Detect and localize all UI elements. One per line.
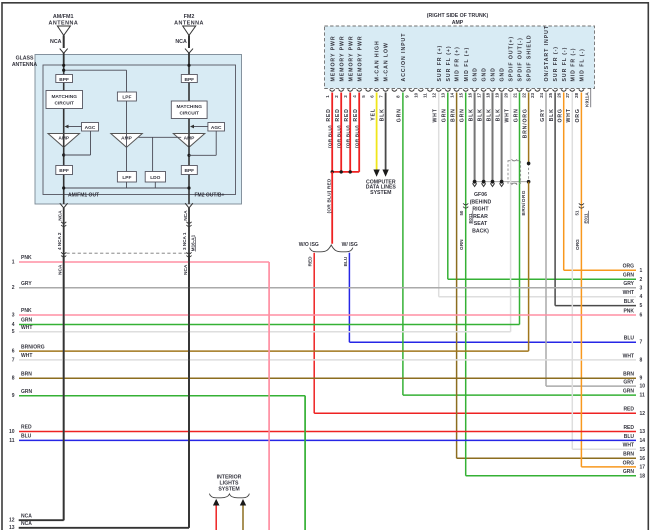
arrow AGC2 to AMP3 input	[193, 126, 208, 128]
svg-text:GRN: GRN	[623, 389, 635, 395]
svg-text:14: 14	[449, 92, 454, 97]
wire BLU branch W/ ISG	[348, 253, 350, 343]
svg-text:E011: E011	[468, 213, 473, 224]
svg-text:8: 8	[12, 376, 15, 382]
svg-text:WHT: WHT	[504, 108, 510, 122]
pin 28 cup connector at x=581.4	[579, 89, 584, 91]
svg-text:WHT: WHT	[21, 325, 32, 331]
pin 8 cup connector at x=402.9	[400, 89, 405, 91]
AMP dashed box (right side of trunk)	[325, 26, 595, 89]
pin 25 cup connector at x=555.1	[553, 89, 558, 91]
svg-text:13: 13	[640, 429, 646, 435]
svg-text:RED: RED	[335, 108, 341, 121]
svg-text:MID FL (-): MID FL (-)	[580, 48, 586, 81]
svg-text:ACC/ON INPUT: ACC/ON INPUT	[401, 33, 407, 82]
connector arrow into glass box (FM2)	[185, 49, 193, 54]
svg-text:BRN/ORG: BRN/ORG	[21, 344, 45, 350]
svg-text:RED: RED	[344, 108, 350, 121]
svg-text:SYSTEM: SYSTEM	[370, 190, 391, 196]
svg-text:BRN: BRN	[450, 108, 456, 122]
svg-text:GRY: GRY	[21, 281, 32, 287]
svg-text:ANTENNA: ANTENNA	[12, 62, 38, 68]
svg-text:GRN: GRN	[459, 239, 465, 250]
svg-text:WHT: WHT	[623, 353, 634, 359]
in-line connector 50 E011 on GRN pin15 wire	[463, 203, 468, 205]
svg-text:NCA: NCA	[50, 39, 62, 45]
svg-text:RED: RED	[326, 108, 332, 121]
svg-text:GRN: GRN	[513, 108, 519, 122]
wire PNK vertical overdraw	[268, 262, 270, 530]
svg-text:10: 10	[9, 429, 15, 435]
svg-text:3 NCA 1: 3 NCA 1	[182, 232, 187, 250]
wire GRN pin21 SPDIF down through shield and left to edge wire 4	[519, 93, 521, 325]
svg-text:YEL: YEL	[370, 108, 376, 121]
wire WHT pin27 down right to edge wire 15	[571, 93, 573, 450]
wire BLK M-CAN LOW to computer data lines	[385, 93, 387, 171]
ISG split brace	[310, 245, 353, 252]
pin 17 cup connector at x=483.6	[481, 89, 486, 91]
svg-text:50: 50	[459, 210, 464, 215]
pin 20 cup connector at x=510.6	[508, 89, 513, 91]
svg-text:18: 18	[485, 92, 490, 97]
wire left 11 BLU full width	[19, 439, 636, 441]
svg-text:25: 25	[548, 92, 553, 97]
svg-text:MEMORY PWR: MEMORY PWR	[339, 35, 345, 81]
svg-text:SUR FL (+): SUR FL (+)	[446, 45, 452, 81]
svg-text:GRN: GRN	[442, 108, 448, 122]
svg-text:MID FL (+): MID FL (+)	[464, 47, 470, 82]
pin 4 cup connector at x=359.2	[357, 89, 362, 91]
wire GRN pin13 down right to edge wire 2	[447, 93, 449, 280]
svg-text:WHT: WHT	[566, 108, 572, 122]
pin 23 cup connector at x=537.4	[535, 89, 540, 91]
svg-text:2: 2	[12, 285, 15, 291]
svg-text:GND: GND	[500, 67, 506, 81]
in-line connector on AM/FM1 wire	[61, 222, 66, 224]
ground bus G706	[473, 181, 529, 183]
pin 7 cup connector at x=385.6	[383, 89, 388, 91]
svg-text:SUR FL (-): SUR FL (-)	[562, 47, 568, 82]
connector arrow out of glass box (AM/FM1)	[60, 203, 68, 208]
feedback loop AMP1 to AGC1	[62, 153, 65, 156]
wire AMP2 to AMP3 connecting line with LDO tap	[139, 136, 182, 138]
svg-text:RED: RED	[623, 425, 634, 431]
svg-text:PNK: PNK	[21, 255, 32, 261]
svg-text:GRN: GRN	[21, 318, 33, 324]
svg-text:M16-A1: M16-A1	[190, 234, 195, 251]
svg-text:BLU: BLU	[624, 434, 635, 440]
svg-text:WHT: WHT	[623, 443, 634, 449]
svg-text:LDO: LDO	[150, 175, 160, 181]
svg-text:16: 16	[640, 456, 646, 462]
svg-text:MID FR (+): MID FR (+)	[455, 46, 461, 81]
svg-text:27: 27	[565, 92, 570, 97]
svg-text:BLU: BLU	[21, 434, 32, 440]
svg-text:E011: E011	[584, 213, 589, 224]
svg-text:18: 18	[640, 473, 646, 479]
wires GND BLK pins 16-19 down to GF06 ground	[474, 93, 476, 182]
svg-text:WHT: WHT	[433, 108, 439, 122]
svg-text:LPF: LPF	[122, 175, 131, 181]
svg-text:12: 12	[432, 92, 437, 97]
svg-text:FM2 OUT/B+: FM2 OUT/B+	[195, 193, 225, 199]
svg-text:BLK: BLK	[477, 108, 483, 121]
svg-text:GND: GND	[491, 67, 497, 81]
svg-text:SPDIF OUT(-): SPDIF OUT(-)	[518, 37, 524, 81]
svg-text:RED: RED	[21, 425, 32, 431]
svg-text:GRN: GRN	[397, 108, 403, 122]
svg-text:9: 9	[12, 393, 15, 399]
pin 22 cup connector at x=528.6	[526, 89, 531, 91]
svg-text:ORG: ORG	[558, 108, 564, 122]
svg-text:WHT: WHT	[623, 290, 634, 296]
svg-text:NCA: NCA	[183, 210, 189, 221]
BPF box bottom-right	[181, 166, 197, 175]
pin 15 cup connector at x=465.7	[463, 89, 468, 91]
svg-text:BRN: BRN	[623, 372, 634, 378]
svg-text:GND: GND	[473, 67, 479, 81]
svg-text:1: 1	[640, 268, 643, 274]
wire segments through AMP triangles	[63, 134, 65, 148]
svg-text:BLK: BLK	[468, 108, 474, 121]
interior lights brace	[209, 494, 249, 498]
svg-text:7: 7	[640, 340, 643, 346]
wire left 1 PNK to vertical	[19, 261, 269, 263]
wire left 10 RED full width	[19, 431, 636, 433]
svg-text:PNK: PNK	[21, 308, 32, 314]
svg-text:MEMORY PWR: MEMORY PWR	[330, 35, 336, 81]
svg-text:GRN: GRN	[460, 108, 466, 122]
wire BRN/ORG pin22 shield drain	[528, 93, 530, 164]
LDO box	[145, 172, 165, 183]
svg-text:M-CAN HIGH: M-CAN HIGH	[375, 40, 381, 81]
wire BRN arrow to interior lights	[242, 504, 244, 530]
pin 5 cup connector at x=368.2	[366, 89, 371, 91]
wire ORG pin26 down right to edge wire 1	[563, 93, 565, 271]
svg-text:BRN: BRN	[623, 452, 634, 458]
wires memory pwr RED pins 1-4 down to bus	[331, 93, 333, 172]
feedback loop AMP3 to AGC2	[187, 154, 190, 157]
svg-text:PNK: PNK	[623, 308, 634, 314]
wire WHT pin20 down and left to edge wire 5	[510, 93, 512, 332]
wire left 7 WHT full width	[19, 359, 636, 361]
svg-text:7: 7	[12, 357, 15, 363]
svg-text:AM/FM1 OUT: AM/FM1 OUT	[68, 193, 99, 199]
svg-text:BLK: BLK	[624, 299, 635, 305]
svg-text:4: 4	[640, 294, 643, 300]
connector arrow out of glass box (FM2)	[185, 203, 193, 208]
shield dashed box around SPDIF pair	[508, 161, 521, 184]
svg-text:GND: GND	[482, 67, 488, 81]
svg-text:NCA: NCA	[58, 210, 64, 221]
svg-text:NCA: NCA	[183, 264, 189, 275]
svg-text:BLK: BLK	[379, 108, 385, 121]
connector arrow into glass box (AM/FM1)	[60, 49, 68, 54]
pin 26 cup connector at x=563.7	[561, 89, 566, 91]
pin 16 cup connector at x=474.6	[472, 89, 477, 91]
wire AM/FM1 vertical overdraw at crossings	[63, 255, 65, 520]
svg-text:ON/START INPUT: ON/START INPUT	[544, 25, 550, 81]
wire RED (OR BLU) combined down to ISG split	[331, 172, 333, 244]
svg-text:10: 10	[640, 384, 646, 390]
wire FM2 vertical inside glass box	[188, 65, 190, 204]
pin 11 cup connector at x=429.9	[427, 89, 432, 91]
BPF box bottom-left	[56, 166, 73, 175]
svg-text:13: 13	[9, 525, 15, 530]
svg-text:5: 5	[640, 303, 643, 309]
in-line connector pair 2 on AM/FM1 wire	[61, 252, 66, 254]
svg-text:(OR BLU) RED: (OR BLU) RED	[326, 178, 332, 213]
svg-text:GRN: GRN	[623, 469, 635, 475]
svg-text:GRY: GRY	[623, 281, 634, 287]
svg-text:24: 24	[539, 92, 544, 97]
pin 12 cup connector at x=438.7	[436, 89, 441, 91]
svg-text:GRY: GRY	[540, 108, 546, 121]
pin 24 cup connector at x=546.0	[543, 89, 548, 91]
wire BRN pin14 down right to edge wire 16	[456, 93, 458, 459]
wire AMP2 apex to lower LPF	[126, 147, 128, 171]
svg-text:NCA: NCA	[21, 513, 32, 519]
svg-text:BPF: BPF	[59, 168, 69, 174]
svg-text:NCA: NCA	[58, 264, 64, 275]
svg-text:20: 20	[503, 92, 508, 97]
in-line connector on FM2 wire	[186, 222, 191, 224]
svg-text:M-CAN LOW: M-CAN LOW	[384, 42, 390, 81]
wire GRN pin15 down right to edge wire 18	[465, 93, 467, 476]
svg-text:MID FR (-): MID FR (-)	[570, 48, 576, 82]
svg-text:SPDIF OUT(+): SPDIF OUT(+)	[509, 36, 515, 82]
wire left 9 GRN to vertical down	[19, 395, 305, 397]
glass antenna inner box	[43, 65, 236, 195]
svg-text:BRN: BRN	[21, 371, 32, 377]
dashed connector tie line	[67, 252, 188, 254]
svg-text:BLK: BLK	[549, 108, 555, 121]
svg-text:22: 22	[521, 92, 526, 97]
svg-text:W/ ISG: W/ ISG	[342, 242, 358, 248]
svg-text:AGC: AGC	[85, 125, 96, 131]
op-amp AMP2 triangle	[111, 134, 143, 148]
svg-text:RIGHT: RIGHT	[472, 207, 489, 213]
svg-text:16: 16	[467, 92, 472, 97]
in-line connector 51 E011 on ORG pin28 wire	[579, 203, 584, 205]
pin 3 cup connector at x=350.2	[348, 89, 353, 91]
svg-text:11: 11	[9, 438, 15, 444]
svg-text:3: 3	[640, 285, 643, 291]
svg-text:GRN: GRN	[21, 389, 33, 395]
matching circuit box left	[46, 91, 83, 109]
svg-text:ORG: ORG	[575, 239, 581, 250]
svg-text:5: 5	[12, 329, 15, 335]
svg-text:W/O ISG: W/O ISG	[299, 242, 319, 248]
pin 10 cup connector at x=420.8	[418, 89, 423, 91]
svg-text:GRY: GRY	[623, 380, 634, 386]
pin gap cup connector at x=394.4	[392, 89, 397, 91]
svg-text:K911A: K911A	[585, 92, 591, 107]
svg-text:SEAT: SEAT	[474, 221, 488, 227]
LPF box lower middle	[117, 172, 136, 183]
wire left 2 GRY full width	[19, 287, 636, 289]
svg-text:NCA: NCA	[175, 39, 187, 45]
wire left 13 NCA	[19, 527, 189, 529]
svg-text:10: 10	[414, 92, 419, 97]
svg-text:FM2: FM2	[184, 14, 195, 20]
junction dots on red bus	[331, 170, 334, 173]
pin 19 cup connector at x=501.6	[499, 89, 504, 91]
pin 21 cup connector at x=519.5	[517, 89, 522, 91]
svg-text:REAR: REAR	[473, 214, 488, 220]
wire LPF to AMP2	[126, 101, 128, 134]
wire RED branch W/O ISG	[313, 253, 315, 414]
svg-text:GLASS: GLASS	[16, 56, 34, 62]
svg-text:14: 14	[640, 438, 646, 444]
svg-text:BACK): BACK)	[472, 229, 489, 235]
svg-text:2: 2	[640, 277, 643, 283]
wire BLK pin25 down right to edge wire 5	[554, 93, 556, 306]
svg-text:BRN/ORG: BRN/ORG	[521, 190, 527, 215]
pin 2 cup connector at x=341.2	[339, 89, 344, 91]
svg-text:3: 3	[12, 312, 15, 318]
pin 18 cup connector at x=492.5	[490, 89, 495, 91]
pin 1 cup connector at x=332.2	[330, 89, 335, 91]
svg-text:(BEHIND: (BEHIND	[470, 199, 492, 205]
pin 6 cup connector at x=376.6	[374, 89, 379, 91]
svg-text:BLU: BLU	[624, 336, 635, 342]
svg-text:12: 12	[640, 411, 646, 417]
svg-text:6: 6	[640, 313, 643, 319]
op-amp AMP1 triangle	[48, 134, 80, 148]
red bus join line	[332, 171, 359, 173]
svg-text:BPF: BPF	[184, 77, 194, 83]
arrow AGC1 to AMP1 input	[67, 126, 82, 128]
svg-text:ORG: ORG	[623, 264, 635, 270]
svg-text:BPF: BPF	[59, 77, 69, 83]
svg-text:ORG: ORG	[623, 460, 635, 466]
wire FM2 vertical overdraw at crossings	[188, 255, 190, 528]
wire left 3 PNK full width	[19, 314, 636, 316]
svg-text:BLU: BLU	[343, 256, 349, 266]
wire GRN pin8 ACC/ON input down and right to edge wire 11	[402, 93, 404, 396]
svg-text:15: 15	[640, 447, 646, 453]
svg-text:CIRCUIT: CIRCUIT	[179, 111, 199, 117]
wire GRY pin24 down right to edge wire 10	[545, 93, 547, 387]
svg-text:SPDIF SHIELD: SPDIF SHIELD	[527, 34, 533, 81]
svg-text:51: 51	[575, 210, 580, 215]
svg-text:CIRCUIT: CIRCUIT	[54, 101, 74, 107]
svg-text:SUR FR (+): SUR FR (+)	[437, 45, 443, 82]
svg-text:GRN: GRN	[623, 273, 635, 279]
svg-text:RED: RED	[623, 407, 634, 413]
svg-text:BLK: BLK	[495, 108, 501, 121]
svg-text:AM/FM1: AM/FM1	[53, 14, 74, 20]
svg-text:21: 21	[512, 92, 517, 97]
svg-text:23: 23	[530, 92, 535, 97]
svg-text:WHT: WHT	[21, 353, 32, 359]
svg-text:17: 17	[476, 92, 481, 97]
svg-text:19: 19	[494, 92, 499, 97]
svg-text:BLK: BLK	[486, 108, 492, 121]
wire WHT pin12 down right to edge wire 4	[438, 93, 440, 297]
svg-text:MEMORY PWR: MEMORY PWR	[348, 35, 354, 81]
svg-text:11: 11	[640, 393, 646, 399]
svg-text:NCA: NCA	[21, 521, 32, 527]
svg-text:4: 4	[12, 322, 15, 328]
AGC box right	[208, 123, 225, 132]
wire FM2 OUT down to bottom	[188, 208, 190, 528]
wire AM/FM1 OUT down to bottom	[63, 208, 65, 520]
svg-text:GF06: GF06	[474, 192, 487, 198]
svg-text:MATCHING: MATCHING	[176, 104, 202, 110]
svg-text:BRN/ORG: BRN/ORG	[522, 108, 528, 138]
svg-text:RED: RED	[353, 108, 359, 121]
wire YEL M-CAN HIGH to computer data lines	[376, 93, 378, 171]
svg-text:SYSTEM: SYSTEM	[218, 486, 239, 492]
wire GRN vertical overdraw	[304, 396, 306, 530]
pin 9 cup connector at x=411.7	[409, 89, 414, 91]
svg-text:4 NCA 2: 4 NCA 2	[57, 232, 62, 250]
svg-text:11: 11	[423, 93, 428, 98]
BPF box top-left	[56, 75, 73, 83]
svg-text:RED: RED	[308, 256, 314, 267]
svg-text:13: 13	[441, 92, 446, 97]
wire ORG pin28 down right to edge wire 17	[580, 93, 582, 467]
pin 14 cup connector at x=456.6	[454, 89, 459, 91]
wire left 8 BRN full width	[19, 377, 636, 379]
node junction dots on inner box top edge	[62, 64, 65, 67]
wire branch to middle LPF	[64, 69, 127, 71]
wire bottom bus of glass box	[126, 182, 128, 188]
matching circuit box right	[171, 101, 207, 119]
svg-text:AMP: AMP	[452, 20, 464, 26]
svg-text:BPF: BPF	[184, 168, 194, 174]
svg-text:AGC: AGC	[211, 125, 222, 131]
svg-text:MEMORY PWR: MEMORY PWR	[357, 35, 363, 81]
pin 13 cup connector at x=447.8	[445, 89, 450, 91]
svg-text:15: 15	[459, 92, 464, 97]
svg-text:26: 26	[557, 92, 562, 97]
svg-text:ORG: ORG	[575, 108, 581, 122]
op-amp AMP3 triangle	[173, 134, 205, 148]
wire RED arrow to interior lights	[215, 504, 217, 530]
svg-text:28: 28	[574, 92, 579, 97]
BPF box top-right	[181, 75, 197, 83]
wire AM/FM1 vertical inside glass box	[63, 65, 65, 204]
svg-text:1: 1	[12, 259, 15, 265]
glass antenna outer box	[35, 55, 242, 205]
svg-text:17: 17	[640, 464, 646, 470]
svg-text:SUR FR (-): SUR FR (-)	[553, 46, 559, 81]
AGC box left	[82, 123, 99, 132]
svg-text:8: 8	[640, 357, 643, 363]
svg-text:9: 9	[640, 376, 643, 382]
svg-text:LPF: LPF	[122, 95, 131, 101]
LPF box upper middle	[117, 92, 136, 101]
wire left 12 NCA	[19, 519, 64, 521]
in-line connector pair 2 on FM2 wire	[186, 252, 191, 254]
svg-text:12: 12	[9, 518, 15, 524]
svg-text:MATCHING: MATCHING	[51, 94, 77, 100]
svg-text:(RIGHT SIDE OF TRUNK): (RIGHT SIDE OF TRUNK)	[427, 13, 489, 19]
svg-text:6: 6	[12, 349, 15, 355]
pin 27 cup connector at x=572.3	[570, 89, 575, 91]
